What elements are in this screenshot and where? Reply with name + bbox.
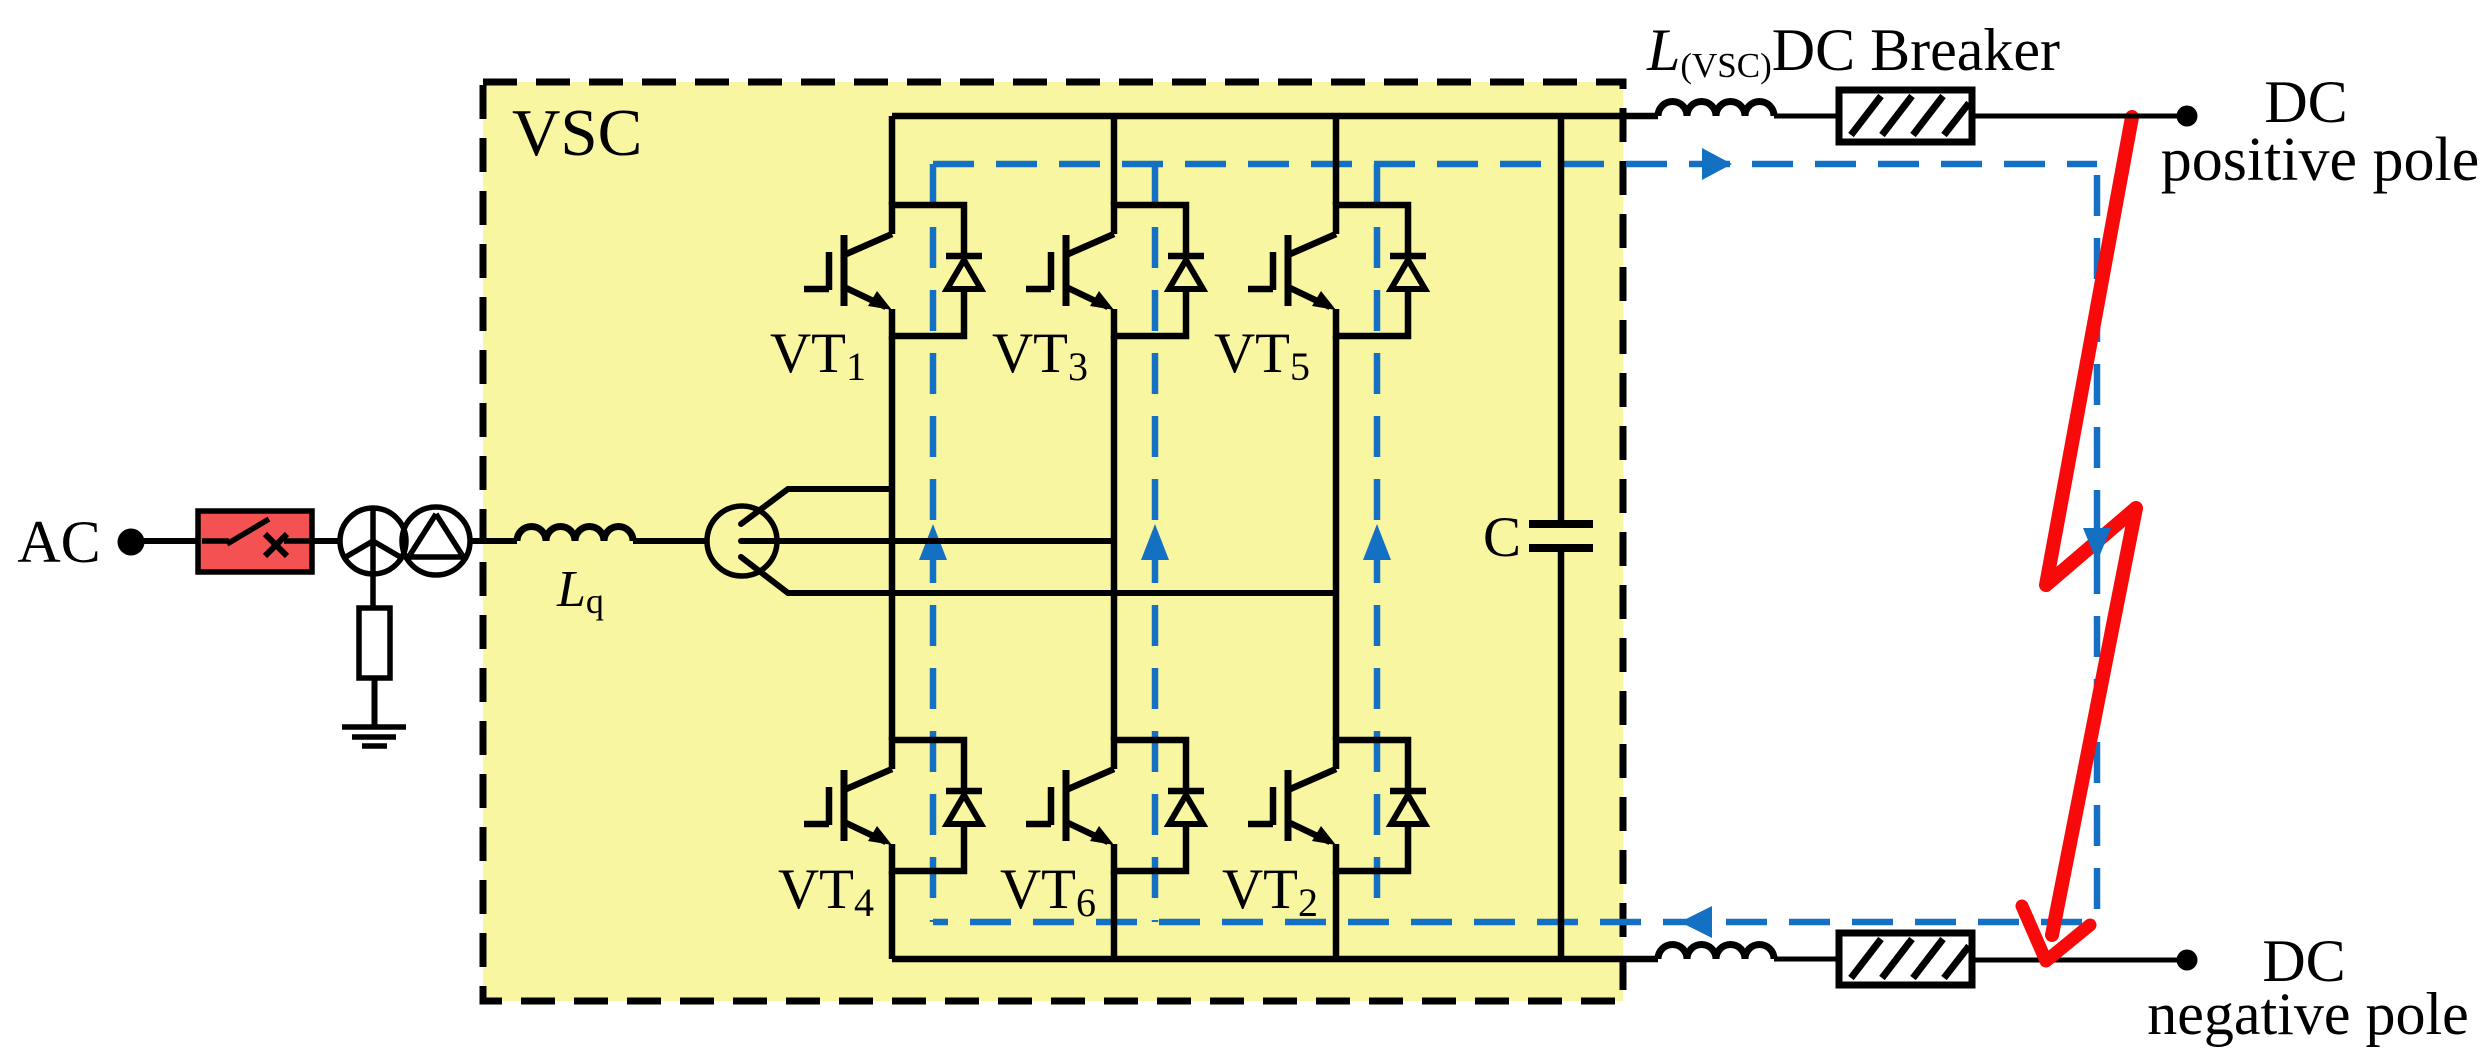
DC negative pole terminal node [2177,950,2198,971]
transformer (Y-Delta two circles) [340,507,470,608]
DC bottom rail [892,956,1658,963]
ground symbol [342,727,406,746]
svg-text:C: C [1483,506,1521,569]
AC terminal node [118,529,145,556]
svg-text:L(VSC)DC Breaker: L(VSC)DC Breaker [1646,17,2060,85]
IGBT VT2 with anti-parallel diode [1248,740,1426,871]
fault current leg path 2 (blue dashed) [1152,164,1159,922]
IGBT VT5 with anti-parallel diode [1248,205,1426,336]
smoothing inductor L(VSC) positive pole [1658,102,1774,117]
grounding resistor [359,608,390,678]
wire inductor to DC breaker positive [1774,114,1839,119]
wire breaker to transformer [312,538,341,544]
IGBT VT3 with anti-parallel diode [1026,205,1204,336]
AC breaker (red box) [198,511,312,572]
DC breaker negative pole (hatched box) [1839,933,1972,985]
IGBT VT4 with anti-parallel diode [804,740,982,871]
phase C wire [741,557,1336,593]
svg-text:VSC: VSC [512,96,642,170]
fault current loop bottom (blue dashed) [933,919,2097,926]
DC link capacitor C lower lead [1558,548,1565,959]
IGBT VT1 with anti-parallel diode [804,205,982,336]
DC positive pole terminal node [2177,106,2198,127]
smoothing inductor negative pole [1658,945,1774,960]
DC top rail [892,113,1658,120]
wire resistor to ground [372,678,378,727]
fault arrowhead [2022,906,2090,961]
phase leg 2 wire segments [1111,116,1118,959]
inductor Lq [517,527,633,542]
wire Lq to phase splitter [633,538,708,544]
IGBT VT6 with anti-parallel diode [1026,740,1204,871]
blue arrow up leg 2 [1141,524,1169,560]
phase B wire [741,538,1114,544]
wire AC terminal to breaker [131,538,198,544]
blue arrow up leg 3 [1363,524,1391,560]
wire transformer into VSC [470,538,517,544]
fault current leg path 1 (blue dashed) [930,164,937,922]
wire DC breaker to negative pole terminal [1972,958,2187,963]
svg-text:negative pole: negative pole [2147,981,2469,1047]
fault current leg path 3 (blue dashed) [1374,164,1381,922]
phase A wire [741,489,892,524]
blue arrow up leg 1 [919,524,947,560]
wire DC breaker to positive pole terminal (over fault) [1972,114,2187,119]
phase splitter circle [707,506,777,576]
DC link capacitor C upper lead [1558,116,1565,524]
fault current loop top (blue dashed) [933,161,2097,168]
pole-to-pole fault (red lightning bolt) [2046,117,2136,935]
blue arrow down on right path (over fault) [2083,528,2111,562]
phase leg 3 wire segments [1333,116,1340,959]
svg-text:positive pole: positive pole [2161,126,2480,194]
fault current loop right vertical (blue dashed) [2094,164,2101,922]
blue arrow right on top path [1702,148,1732,180]
blue arrow left on bottom path [1680,906,1712,938]
phase leg 1 wire segments [889,116,896,959]
wire inductor to DC breaker negative [1774,957,1839,962]
VSC converter enclosure (yellow box with black dashed border) [483,82,1623,1001]
svg-text:AC: AC [17,509,100,575]
DC link capacitor C plates [1529,524,1593,548]
DC breaker positive pole (hatched box) [1839,90,1972,142]
